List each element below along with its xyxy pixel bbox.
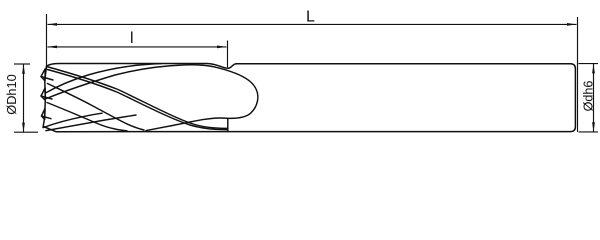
extension line d bottom (579, 131, 599, 133)
corner fan rising line lower (46, 115, 136, 131)
arrowhead D top (22, 64, 25, 74)
end tooth 3 (42, 109, 46, 120)
arrowhead L right (567, 23, 577, 26)
corner fan rising line upper (44, 113, 103, 127)
arrowhead L left (47, 23, 57, 26)
dimension line D (23, 64, 25, 132)
extension line left at tool tip (46, 14, 48, 66)
extension line d top (579, 63, 599, 65)
flute descending pair lower (48, 70, 228, 130)
runout leaf bottom arc (146, 118, 228, 131)
arrowhead l left (47, 46, 57, 49)
svg-text:L: L (306, 9, 315, 26)
arrowhead l right (217, 46, 227, 49)
flute rising band A upper (46, 64, 162, 93)
end tooth 1 (41, 69, 45, 81)
tooth face line 3 (42, 116, 52, 119)
arrowhead D bottom (22, 123, 25, 133)
dimension line L (48, 23, 577, 25)
end tooth 2 (41, 88, 45, 100)
dimension line d (593, 64, 595, 132)
descending gullet line from tooth 1 (48, 84, 145, 131)
dimension line l (48, 46, 227, 48)
extension line right at tool end (577, 17, 579, 132)
extension line D bottom (14, 131, 38, 133)
tooth face line 2 (41, 96, 52, 99)
svg-text:ØDh10: ØDh10 (4, 74, 19, 115)
left end face edge (43, 66, 47, 127)
flute rising band A lower merging into runout leaf top and right bulge (47, 65, 258, 119)
arrowhead d bottom (592, 122, 595, 132)
svg-text:Ødh6: Ødh6 (582, 81, 596, 112)
body outline: top edge, flute-end notch, shank, right end, bottom edge (44, 64, 576, 132)
flute descending pair upper (47, 67, 228, 129)
tooth face line 1 (41, 77, 53, 81)
arrowhead d top (592, 64, 595, 74)
svg-text:l: l (130, 30, 134, 47)
flute end bottom tick (227, 118, 229, 131)
extension line D top (14, 63, 30, 65)
extension line at flute end (227, 41, 229, 68)
short descending gullet line from tooth 2 (47, 103, 127, 131)
